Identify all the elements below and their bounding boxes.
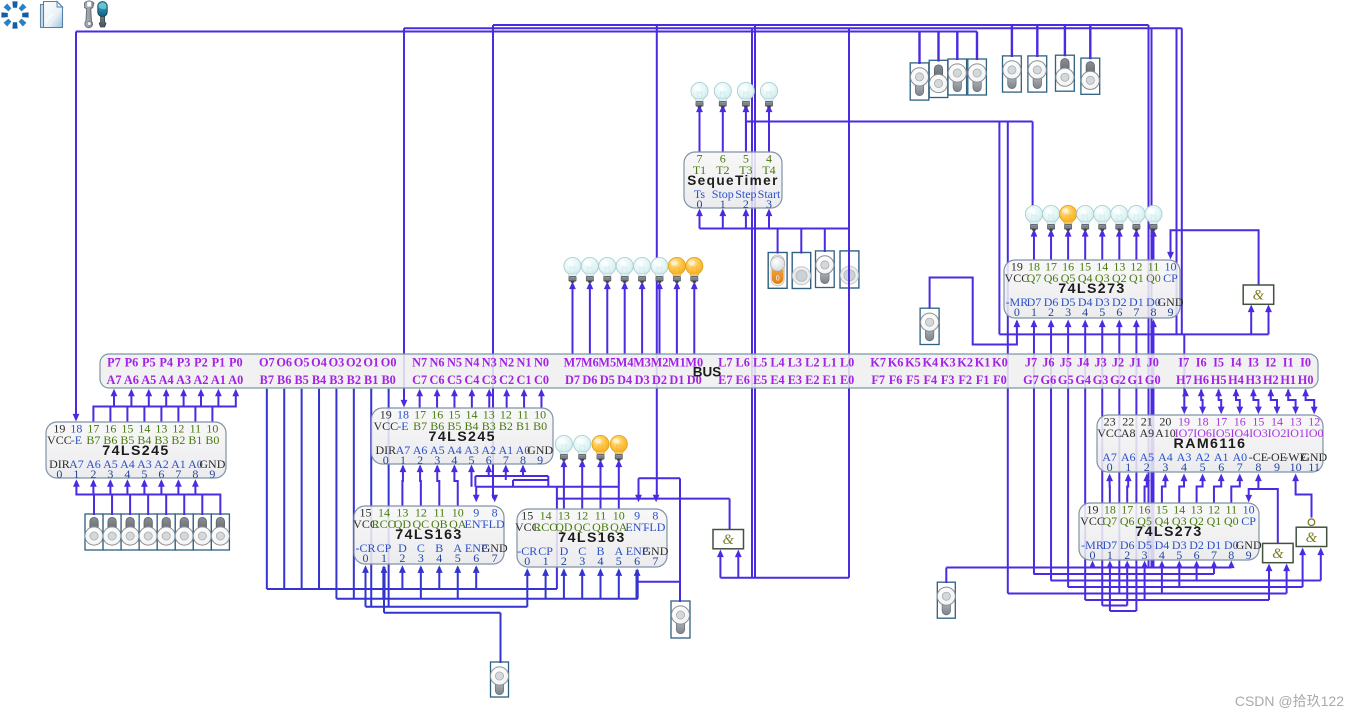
wire drop x=493 to -LD of 163#1 — [492, 25, 494, 498]
wire bus G4/J4 column to 74LS273#1 D4 and bottom trunk — [1084, 326, 1086, 601]
wire vertical lineB to trunk T1 — [556, 487, 558, 589]
svg-text:C4: C4 — [464, 373, 479, 387]
svg-text:9: 9 — [1168, 305, 1174, 319]
wire 74LS273#2 Q7 to RAM A7 — [1109, 480, 1111, 504]
svg-text:D1: D1 — [669, 373, 684, 387]
svg-text:C2: C2 — [499, 373, 514, 387]
wire bottom-right trunk A y=567.5 — [946, 567, 1231, 569]
svg-text:1: 1 — [1107, 548, 1113, 562]
svg-text:J3: J3 — [1094, 356, 1106, 370]
wire riser to 74LS163#1 D — [401, 567, 403, 589]
svg-text:B0: B0 — [381, 373, 395, 387]
svg-text:J6: J6 — [1042, 356, 1054, 370]
wire bus G7/J7 column to 74LS273#1 D7 and bottom trunk — [1033, 326, 1035, 575]
svg-text:N2: N2 — [499, 356, 514, 370]
wire 74LS273#2 Q0 to RAM A0 — [1231, 480, 1240, 504]
wire SequeTimer T2 to lamp — [722, 109, 724, 153]
wire S-MR switch to -MR of 74LS273#1 — [930, 278, 1017, 345]
svg-text:D4: D4 — [617, 373, 632, 387]
svg-text:B7: B7 — [260, 373, 274, 387]
svg-text:B1: B1 — [516, 419, 530, 433]
wire AND1 output to CP of 74LS273#1 — [1171, 230, 1259, 285]
wire 74LS273#2 Q1 to RAM A1 — [1214, 480, 1221, 504]
lamp T1 (off) — [691, 82, 708, 107]
wire riser to 74LS163#2 ENP — [635, 570, 638, 599]
svg-text:E4: E4 — [770, 373, 784, 387]
wire 74LS245#2 B6 to bus C6 — [436, 393, 438, 408]
wire riser down to 163#1 ENT — [475, 487, 477, 499]
chip 74LS273 U6 (bottom right register) — [1079, 503, 1262, 562]
svg-text:74LS273: 74LS273 — [1135, 524, 1202, 540]
wire SequeTimer input trunk — [700, 228, 850, 230]
svg-text:0: 0 — [524, 554, 530, 568]
svg-text:6: 6 — [486, 453, 492, 467]
wire bus M3 to display lamp — [641, 286, 643, 356]
svg-text:5: 5 — [616, 554, 622, 568]
wire 74LS163#1 QC to 74LS245#2 A6 — [419, 466, 422, 506]
svg-text:L6: L6 — [736, 356, 750, 370]
wire 74LS163#2 QA to lamp — [618, 464, 620, 510]
wire line B y=486.8 — [475, 486, 619, 488]
AND gate U-AND2 (bottom right) — [1263, 543, 1294, 562]
wire AND0 inputs from bottom trunk — [720, 577, 849, 579]
svg-text:VCC: VCC — [1005, 271, 1030, 285]
svg-text:-LD: -LD — [645, 520, 665, 534]
svg-text:1: 1 — [381, 551, 387, 565]
svg-text:8: 8 — [1228, 548, 1234, 562]
svg-text:B3: B3 — [329, 373, 343, 387]
wire bus H0 to RAM IO0 — [1306, 390, 1315, 411]
svg-text:B1: B1 — [188, 433, 202, 447]
wire 74LS245#1 B3 to bus A3 — [161, 391, 183, 422]
wire 74LS245#2 B7 to bus C7 — [419, 393, 421, 408]
svg-text:10: 10 — [1290, 460, 1302, 474]
toolbar icon: run (blue starburst) — [1, 1, 28, 28]
svg-text:P2: P2 — [194, 356, 208, 370]
wire 74LS163#2 QC to lamp — [581, 464, 583, 510]
wire RAM -CE and CP of 74LS273#2 from AND2 output — [1258, 480, 1277, 544]
wire riser to 74LS163#2 CP — [545, 570, 547, 599]
svg-text:H7: H7 — [1176, 373, 1192, 387]
svg-text:5: 5 — [1200, 460, 1206, 474]
svg-text:O3: O3 — [329, 356, 345, 370]
svg-text:7: 7 — [652, 554, 658, 568]
input switch D0 — [211, 514, 229, 550]
wire 74LS273#2 Q2 to RAM A2 — [1197, 480, 1203, 504]
wire 74LS245#1 B6 to bus A6 — [110, 391, 131, 422]
wire AND3 output (bubble) to RAM -WE — [1296, 480, 1312, 518]
wire 74LS245#2 B1 to bus C1 — [523, 393, 525, 408]
lamp M1 (on) — [668, 257, 685, 282]
wire 74LS273#1 Q3 to lamp — [1101, 233, 1103, 260]
wire 74LS273#2 Q4 to RAM A4 — [1162, 480, 1166, 504]
BUS bar — [100, 354, 1318, 388]
wire 74LS273#1 Q1 to lamp — [1135, 233, 1137, 260]
switch group SW1 (top-right bank A, 4 toggle switches) — [910, 63, 929, 100]
svg-text:VCC: VCC — [1097, 426, 1122, 440]
AND gate U-AND1 (right of 273#1) — [1243, 285, 1274, 304]
wire bus B3 column down — [335, 389, 337, 599]
chip 74LS245 U2 (middle) — [372, 408, 554, 467]
wire bus M2 to display lamp — [658, 286, 660, 356]
svg-text:L4: L4 — [770, 356, 784, 370]
svg-text:D7: D7 — [565, 373, 580, 387]
svg-text:A6: A6 — [124, 373, 139, 387]
svg-text:H0: H0 — [1298, 373, 1314, 387]
wire riser -MR 74LS273#2 — [1092, 565, 1094, 568]
svg-text:O1: O1 — [363, 356, 379, 370]
svg-text:C0: C0 — [534, 373, 549, 387]
svg-text:SequeTimer: SequeTimer — [687, 173, 779, 188]
svg-text:3: 3 — [1162, 460, 1168, 474]
input switch D3 — [157, 514, 175, 550]
svg-text:Q6: Q6 — [1120, 514, 1135, 528]
wire input switch 6 to 74LS245#1 A1 — [178, 481, 202, 515]
svg-text:5: 5 — [141, 467, 147, 481]
svg-text:4: 4 — [1159, 548, 1165, 562]
svg-text:M1: M1 — [668, 356, 686, 370]
svg-text:7: 7 — [175, 467, 181, 481]
wire vertical pair x=1148.5/1151.5 down to bottom trunks — [1148, 25, 1150, 568]
svg-text:VCC: VCC — [1080, 514, 1105, 528]
svg-text:B6: B6 — [277, 373, 291, 387]
wire riser to 74LS163#2 A — [618, 570, 620, 599]
svg-text:P3: P3 — [177, 356, 191, 370]
svg-text:0: 0 — [1014, 305, 1020, 319]
wire riser to 74LS163#1 B — [438, 567, 440, 589]
chip RAM6116 U7 — [1097, 415, 1328, 474]
wire bottom-right trunk B y=574 — [1033, 573, 1214, 575]
svg-text:C1: C1 — [517, 373, 532, 387]
svg-text:N0: N0 — [534, 356, 549, 370]
wire 74LS273#1 Q2 to lamp — [1118, 233, 1120, 260]
AND gate U-AND3 (with bubble, feeds -WE) — [1296, 519, 1327, 547]
wire riser to 74LS163#1 A — [457, 567, 459, 599]
svg-text:D5: D5 — [600, 373, 615, 387]
wire 74LS163#1 QB to 74LS245#2 A5 — [437, 466, 439, 506]
svg-text:7: 7 — [503, 453, 509, 467]
svg-text:-E: -E — [397, 419, 408, 433]
svg-text:I5: I5 — [1213, 356, 1224, 370]
svg-text:&: & — [723, 532, 735, 548]
svg-text:K5: K5 — [905, 356, 921, 370]
svg-text:A0: A0 — [228, 373, 243, 387]
svg-text:0: 0 — [383, 453, 389, 467]
lamp Q7 of 74LS273#1 (off) — [1025, 205, 1042, 230]
svg-text:2: 2 — [399, 551, 405, 565]
chip 74LS245 U1 (left) — [46, 422, 226, 481]
wire middle junction box trunks — [475, 475, 548, 477]
svg-text:6: 6 — [634, 554, 640, 568]
svg-text:Q0: Q0 — [1146, 271, 1161, 285]
wire input switch 4 to 74LS245#1 A3 — [144, 481, 166, 515]
svg-text:P4: P4 — [159, 356, 173, 370]
wire 74LS273#1 Q5 to lamp — [1067, 233, 1069, 260]
wire riser to 74LS163#2 D — [563, 570, 565, 599]
svg-text:P6: P6 — [125, 356, 139, 370]
svg-text:L5: L5 — [753, 356, 767, 370]
svg-text:C7: C7 — [412, 373, 427, 387]
wire 74LS163#1 QD to 74LS245#2 A7 — [401, 466, 404, 506]
svg-text:2: 2 — [743, 197, 749, 211]
wire top trunk 2 — [404, 27, 1182, 29]
svg-text:G5: G5 — [1058, 373, 1074, 387]
svg-text:VCC: VCC — [373, 419, 398, 433]
svg-text:4: 4 — [1082, 305, 1088, 319]
svg-text:I2: I2 — [1265, 356, 1276, 370]
svg-text:A2: A2 — [193, 373, 208, 387]
svg-text:0: 0 — [1107, 460, 1113, 474]
wire SequeTimer T3 to lamp — [745, 109, 747, 153]
svg-text:A3: A3 — [176, 373, 191, 387]
wire bus G1/J1 column to 74LS273#1 D1 and bottom trunk — [1135, 326, 1137, 612]
wire bus B0 column down — [388, 389, 390, 607]
wire 74LS273#2 Q3 to RAM A3 — [1179, 480, 1184, 504]
svg-text:I7: I7 — [1178, 356, 1189, 370]
svg-text:M7: M7 — [564, 356, 582, 370]
svg-text:L0: L0 — [840, 356, 854, 370]
wire SequeTimer T1 to lamp — [699, 109, 701, 153]
svg-text:L1: L1 — [823, 356, 837, 370]
svg-text:P1: P1 — [212, 356, 226, 370]
wire line C y=498.6 to AND0 gate — [557, 498, 730, 500]
svg-text:M2: M2 — [651, 356, 669, 370]
svg-text:74LS163: 74LS163 — [558, 530, 625, 546]
wire link ENP riser to switch S-ENT line — [638, 581, 680, 583]
svg-text:A5: A5 — [141, 373, 156, 387]
svg-text:K1: K1 — [975, 356, 991, 370]
svg-text:3: 3 — [766, 197, 772, 211]
wire riser to 74LS163#2 B — [600, 570, 602, 599]
svg-text:1: 1 — [1031, 305, 1037, 319]
svg-text:K0: K0 — [992, 356, 1008, 370]
lamp counter QD (off) — [555, 435, 572, 460]
wire 74LS245#2 B2 to bus C2 — [506, 393, 508, 408]
wire bus H3 to RAM IO3 — [1253, 390, 1258, 411]
lamp Q1 of 74LS273#1 (off) — [1128, 205, 1145, 230]
lamp Q4 of 74LS273#1 (off) — [1077, 205, 1094, 230]
svg-text:3: 3 — [1142, 548, 1148, 562]
svg-text:A8: A8 — [1121, 426, 1136, 440]
svg-text:74LS163: 74LS163 — [395, 527, 462, 543]
wire 74LS245#2 B3 to bus C3 — [488, 393, 490, 408]
wire 74LS245#2 B0 to bus C0 — [540, 393, 542, 408]
svg-text:7: 7 — [1211, 548, 1217, 562]
svg-text:E2: E2 — [805, 373, 819, 387]
lamp Q5 of 74LS273#1 (on) — [1060, 205, 1077, 230]
svg-text:8: 8 — [1150, 305, 1156, 319]
svg-text:B4: B4 — [312, 373, 326, 387]
svg-text:8: 8 — [1255, 460, 1261, 474]
svg-text:Q6: Q6 — [1044, 271, 1059, 285]
svg-text:4: 4 — [1181, 460, 1187, 474]
lamp M5 (off) — [599, 257, 616, 282]
svg-text:4: 4 — [436, 551, 442, 565]
svg-text:E0: E0 — [840, 373, 854, 387]
svg-text:O6: O6 — [276, 356, 292, 370]
chip 74LS273 U5 (top right register) — [1004, 260, 1184, 319]
svg-text:F7: F7 — [871, 373, 885, 387]
wire trunk T4 y=612.8 to switch S-CP — [384, 612, 501, 614]
svg-text:F2: F2 — [958, 373, 972, 387]
svg-text:B0: B0 — [533, 419, 547, 433]
AND gate U-AND0 (bottom middle) — [713, 530, 744, 549]
svg-text:G2: G2 — [1110, 373, 1126, 387]
wire 74LS273#2 Q5 to RAM A5 — [1145, 480, 1147, 504]
svg-text:K4: K4 — [922, 356, 938, 370]
switch S-ENT (bottom middle) — [671, 601, 690, 638]
wire bottom-right trunk G y=605.5 — [1102, 605, 1127, 607]
lamp T4 (off) — [760, 82, 777, 107]
svg-text:B2: B2 — [499, 419, 513, 433]
svg-text:CSDN @拾玖122: CSDN @拾玖122 — [1235, 693, 1344, 709]
wire trunk T1 y=589 — [267, 588, 557, 590]
input switch D2 — [175, 514, 193, 550]
svg-text:F6: F6 — [889, 373, 903, 387]
wire input switch 1 to 74LS245#1 A6 — [93, 481, 112, 515]
svg-text:F4: F4 — [924, 373, 938, 387]
svg-text:CP: CP — [1241, 514, 1256, 528]
wire drop x=656.8 to -LD of 163#2 — [656, 25, 658, 498]
svg-text:7: 7 — [1133, 305, 1139, 319]
wire input switch 0 to 74LS245#1 A7 — [76, 481, 94, 515]
switch S-CLR (bottom right) — [937, 582, 955, 618]
svg-text:L3: L3 — [788, 356, 802, 370]
wire input switch 3 to 74LS245#1 A4 — [127, 481, 148, 515]
wire trunk T3 y=606.8 — [366, 606, 528, 608]
wire 74LS273#1 Q0 to lamp — [1152, 233, 1154, 260]
wire bottom-right trunk D2 y=587 — [1068, 586, 1303, 588]
svg-text:I1: I1 — [1283, 356, 1294, 370]
wire bus B2 column down — [353, 389, 355, 599]
svg-text:N5: N5 — [447, 356, 462, 370]
svg-text:0: 0 — [363, 551, 369, 565]
svg-text:E1: E1 — [823, 373, 837, 387]
svg-text:RAM6116: RAM6116 — [1174, 436, 1247, 452]
svg-text:VCC: VCC — [47, 433, 72, 447]
wire 74LS273#2 Q6 to RAM A6 — [1127, 480, 1128, 504]
svg-text:A4: A4 — [159, 373, 174, 387]
wire stubs to switch group B — [1011, 25, 1013, 57]
svg-text:2: 2 — [1124, 548, 1130, 562]
svg-text:B1: B1 — [364, 373, 378, 387]
svg-text:A7: A7 — [106, 373, 121, 387]
input switch D6 — [103, 514, 121, 550]
lamp M4 (off) — [616, 257, 633, 282]
svg-text:4: 4 — [451, 453, 457, 467]
wire bus H7 to RAM IO7 vertical from trunk E — [1183, 334, 1185, 410]
svg-text:G0: G0 — [1145, 373, 1161, 387]
toolbar icon: tools (wrench and screwdriver) — [85, 1, 108, 28]
wire riser to 74LS163#1 C — [420, 567, 422, 599]
chip SequeTimer U8 — [684, 152, 782, 211]
wire stubs middle switches — [777, 229, 779, 254]
svg-text:3: 3 — [418, 551, 424, 565]
svg-text:P0: P0 — [229, 356, 243, 370]
wire vertical x=1176.5 — [1176, 28, 1178, 334]
svg-text:Q7: Q7 — [1027, 271, 1042, 285]
svg-text:2: 2 — [1144, 460, 1150, 474]
svg-text:Q7: Q7 — [1103, 514, 1118, 528]
wire 74LS163#1 QA to 74LS245#2 A4 — [454, 466, 457, 506]
svg-text:C5: C5 — [447, 373, 462, 387]
svg-text:K2: K2 — [957, 356, 973, 370]
lamp T2 (off) — [714, 82, 731, 107]
wire riser to SequeTimer Ts — [699, 213, 701, 229]
lamp M2 (off) — [651, 257, 668, 282]
wire riser to 74LS163#1 CP — [382, 567, 385, 599]
svg-text:11: 11 — [1308, 460, 1320, 474]
svg-text:7: 7 — [492, 551, 498, 565]
svg-text:-LD: -LD — [485, 517, 505, 531]
svg-text:J0: J0 — [1147, 356, 1159, 370]
wire riser to SequeTimer Stop — [722, 213, 724, 229]
svg-text:K7: K7 — [870, 356, 886, 370]
svg-text:A1: A1 — [211, 373, 226, 387]
svg-text:1: 1 — [400, 453, 406, 467]
wire risers to 245#2 pins A3-A0 — [471, 469, 473, 487]
wire bus H2 to RAM IO2 — [1271, 390, 1277, 411]
svg-text:IO1: IO1 — [1286, 426, 1305, 440]
wire bus B6 column down — [283, 389, 285, 589]
svg-text:J1: J1 — [1129, 356, 1141, 370]
svg-text:F5: F5 — [906, 373, 920, 387]
svg-text:H2: H2 — [1263, 373, 1279, 387]
wire riser to 74LS163#2 C — [581, 570, 583, 599]
svg-text:6: 6 — [158, 467, 164, 481]
middle switch group (slider, button, key, button) — [768, 253, 787, 289]
lamp Q3 of 74LS273#1 (off) — [1094, 205, 1111, 230]
wire riser to SequeTimer Step — [745, 213, 747, 229]
svg-text:O0: O0 — [381, 356, 397, 370]
wire vertical x=1181.8 — [1181, 28, 1183, 334]
svg-text:I3: I3 — [1248, 356, 1259, 370]
svg-text:3: 3 — [579, 554, 585, 568]
svg-text:G6: G6 — [1041, 373, 1057, 387]
svg-text:9: 9 — [1274, 460, 1280, 474]
svg-text:J2: J2 — [1112, 356, 1124, 370]
wire 74LS163#2 QD to lamp — [563, 464, 565, 510]
svg-text:B5: B5 — [294, 373, 308, 387]
svg-text:6: 6 — [473, 551, 479, 565]
switch S-CP (bottom center) — [490, 662, 508, 697]
wire x=999.4 trunk D to trunk E — [998, 122, 1000, 335]
lamp M3 (off) — [633, 257, 650, 282]
wire input switch 2 to 74LS245#1 A5 — [110, 481, 130, 515]
wire bus H6 to RAM IO6 — [1201, 390, 1202, 411]
svg-text:G7: G7 — [1023, 373, 1039, 387]
wire bottom-right trunk C y=580.5 — [1051, 580, 1321, 582]
svg-text:6: 6 — [1116, 305, 1122, 319]
svg-text:E3: E3 — [788, 373, 802, 387]
svg-text:IO2: IO2 — [1268, 426, 1287, 440]
svg-text:N4: N4 — [464, 356, 479, 370]
svg-text:G4: G4 — [1075, 373, 1091, 387]
wire bus G0/J0 column to 74LS273#1 D0 and bottom trunk — [1152, 326, 1154, 568]
svg-text:1: 1 — [720, 197, 726, 211]
svg-text:5: 5 — [1176, 548, 1182, 562]
wire input switch 5 to 74LS245#1 A2 — [161, 481, 184, 515]
svg-text:3: 3 — [107, 467, 113, 481]
svg-text:5: 5 — [1099, 305, 1105, 319]
svg-text:G3: G3 — [1093, 373, 1109, 387]
wire risers trunk E to AND gate U-AND1 inputs — [1250, 309, 1252, 335]
switch S-MR (feeds 74LS273#1 -MR) — [920, 308, 939, 344]
lamp counter QC (off) — [574, 435, 591, 460]
svg-text:D2: D2 — [652, 373, 667, 387]
wire bus G2/J2 column to 74LS273#1 D2 and bottom trunk — [1118, 326, 1120, 594]
svg-text:M5: M5 — [598, 356, 616, 370]
